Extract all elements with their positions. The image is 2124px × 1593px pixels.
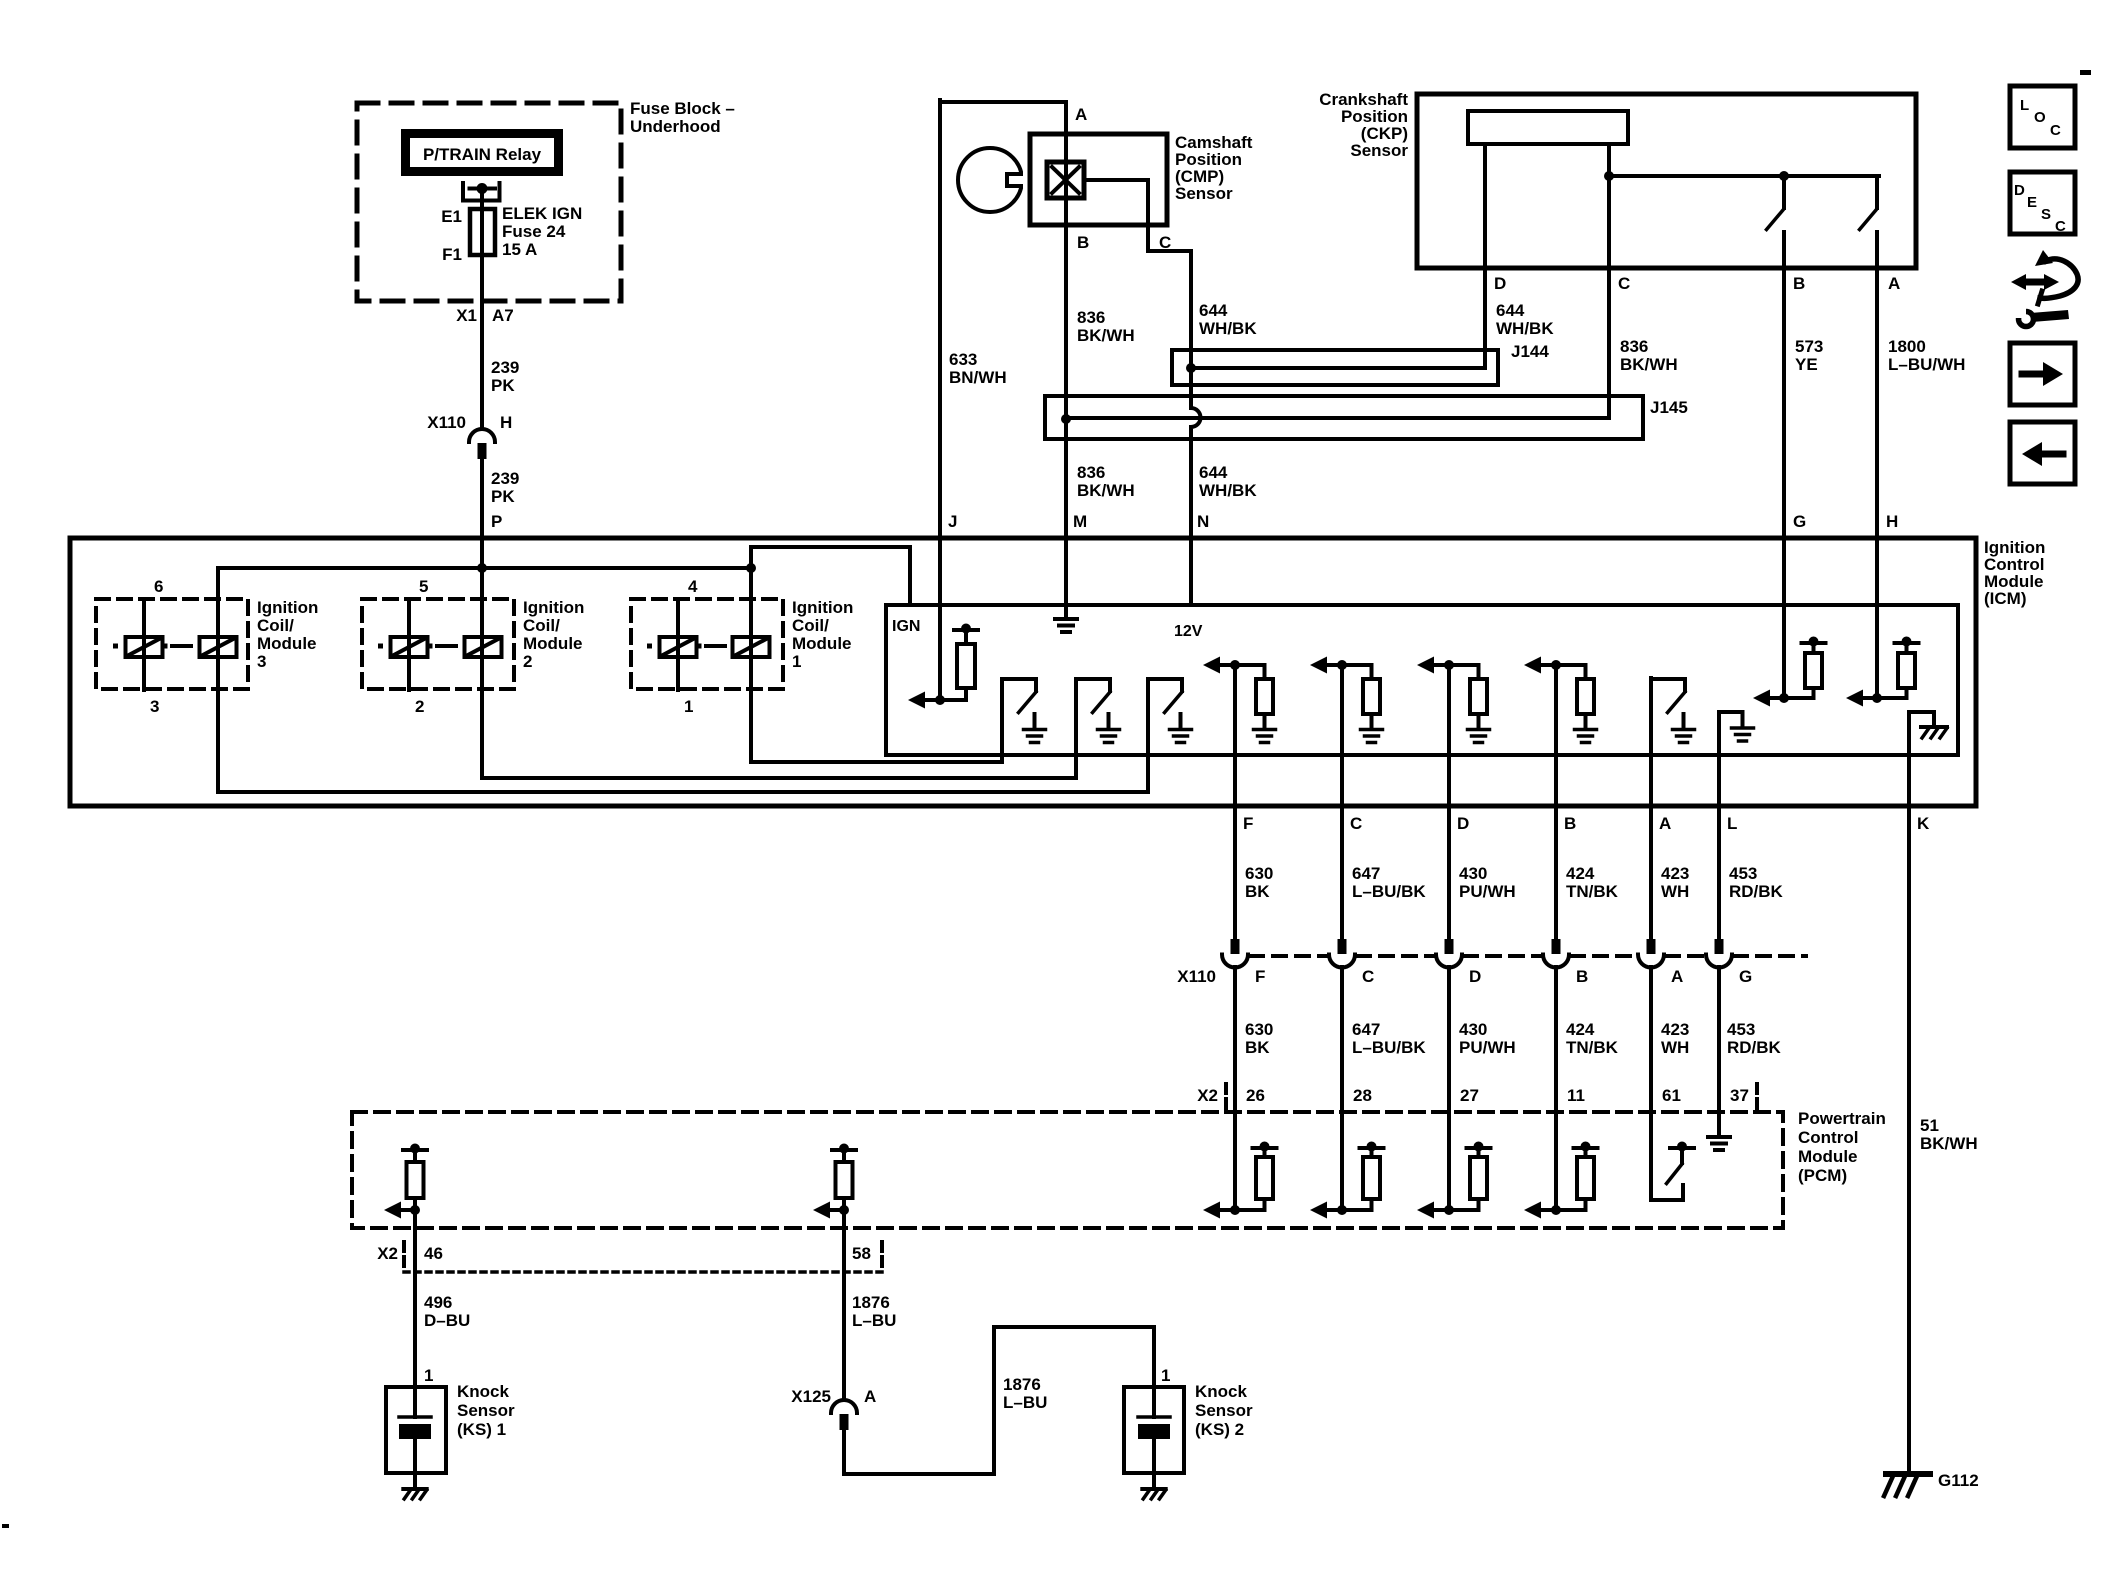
wire 239 PK from X110 to ICM pin P [480, 459, 484, 637]
svg-text:YE: YE [1795, 355, 1818, 374]
svg-text:G: G [1793, 512, 1806, 531]
CKP pin labels [1494, 274, 1900, 293]
svg-text:1876: 1876 [852, 1293, 890, 1312]
P/TRAIN Relay box [401, 129, 563, 176]
svg-text:1: 1 [424, 1366, 433, 1385]
camshaft position (CMP) sensor circle [958, 148, 1022, 212]
ignition coil/module 1 dashed box [631, 599, 783, 689]
svg-text:L–BU/BK: L–BU/BK [1352, 882, 1426, 901]
svg-text:12V: 12V [1174, 623, 1203, 640]
svg-text:28: 28 [1353, 1086, 1372, 1105]
wire labels 630 BK / 647 L-BU/BK / 430 PU/WH / 424 TN/BK / 423 WH / 453 RD/BK (row 1) [1245, 864, 1784, 901]
CKP wire labels [1496, 301, 1965, 531]
ignition coil/module 3 dashed box [96, 599, 248, 689]
svg-text:PK: PK [491, 487, 515, 506]
svg-text:X1: X1 [456, 306, 477, 325]
svg-text:Control: Control [1798, 1128, 1858, 1147]
wires X110 to PCM [1233, 967, 1237, 1210]
PCM channel at x=1235: pull-up resistor, junction, arrow [1253, 1146, 1277, 1150]
ignition control module (ICM) box [70, 538, 1976, 806]
coil module 2 labels [415, 577, 584, 716]
svg-text:496: 496 [424, 1293, 452, 1312]
svg-text:6: 6 [154, 577, 163, 596]
svg-text:A: A [1671, 967, 1683, 986]
svg-text:L–BU: L–BU [1003, 1393, 1047, 1412]
svg-text:644: 644 [1199, 463, 1228, 482]
ICM bottom pin labels [1243, 814, 1930, 833]
powertrain control module (PCM) dashed box [352, 1112, 1783, 1228]
svg-text:27: 27 [1460, 1086, 1479, 1105]
svg-text:WH/BK: WH/BK [1199, 319, 1257, 338]
svg-text:647: 647 [1352, 1020, 1380, 1039]
svg-text:Knock: Knock [457, 1382, 510, 1401]
svg-text:H: H [1886, 512, 1898, 531]
svg-text:K: K [1917, 814, 1930, 833]
svg-text:S: S [2041, 206, 2051, 223]
wire label 239 PK [491, 358, 519, 395]
wire 573 YE (G wire) [1782, 232, 1786, 698]
knock sensor (KS) 2 [1161, 1366, 1170, 1385]
wire module 2 primary to switch (coil 2 control) [482, 637, 1076, 778]
nav icon back (left arrow) [2010, 422, 2075, 484]
wire 51 BK/WH [1920, 1116, 1978, 1153]
ICM internal module box [886, 605, 1958, 755]
ICM switch output channel A [1649, 678, 1653, 939]
svg-text:Underhood: Underhood [630, 117, 721, 136]
nav icon next (right arrow) [2010, 343, 2075, 405]
svg-text:J145: J145 [1650, 398, 1688, 417]
wire 633 BN/WH (J wire) [938, 100, 942, 700]
nav icon DESC [2010, 172, 2075, 234]
svg-text:D: D [1494, 274, 1506, 293]
svg-text:A7: A7 [492, 306, 514, 325]
svg-text:5: 5 [419, 577, 428, 596]
svg-text:15 A: 15 A [502, 240, 537, 259]
svg-text:Fuse Block –: Fuse Block – [630, 99, 735, 118]
output channel at x=1342: arrow, junction, resistor to ground [1337, 660, 1347, 670]
svg-text:836: 836 [1620, 337, 1648, 356]
svg-text:2: 2 [415, 697, 424, 716]
ignition coil/module 2 dashed box [362, 599, 514, 689]
svg-text:WH: WH [1661, 882, 1689, 901]
svg-text:L–BU/BK: L–BU/BK [1352, 1038, 1426, 1057]
X110 connector terminal at x=1719 [1715, 939, 1724, 954]
wire labels 496 D-BU / 1876 L-BU [424, 1293, 896, 1330]
PCM channel at x=1556: pull-up resistor, junction, arrow [1574, 1146, 1598, 1150]
svg-text:BN/WH: BN/WH [949, 368, 1007, 387]
CMP pin labels [1075, 105, 1171, 252]
coil driver switch 1 [1000, 679, 1004, 762]
KS1 chassis ground [403, 1487, 426, 1491]
svg-text:G: G [1739, 967, 1752, 986]
connector X110 pin H [469, 429, 495, 442]
svg-text:2: 2 [523, 652, 532, 671]
svg-text:3: 3 [257, 652, 266, 671]
svg-text:X2: X2 [377, 1244, 398, 1263]
linkage dot-dash [378, 644, 383, 649]
svg-text:BK: BK [1245, 882, 1270, 901]
svg-text:26: 26 [1246, 1086, 1265, 1105]
connector X2 labels (ignition side) [1197, 1086, 1749, 1105]
svg-text:F: F [1255, 967, 1265, 986]
svg-text:424: 424 [1566, 864, 1595, 883]
svg-text:J: J [948, 512, 957, 531]
X2 connector end ticks [1224, 1084, 1228, 1108]
svg-text:644: 644 [1496, 301, 1525, 320]
coil module 2 primary winding [465, 637, 502, 657]
PCM channel at x=1342: pull-up resistor, junction, arrow [1360, 1146, 1384, 1150]
svg-text:1: 1 [684, 697, 693, 716]
svg-text:647: 647 [1352, 864, 1380, 883]
svg-text:RD/BK: RD/BK [1729, 882, 1784, 901]
svg-text:C: C [1362, 967, 1374, 986]
CKP sensor element [1468, 111, 1628, 144]
nav icon swap/wrench [2011, 250, 2078, 304]
svg-text:61: 61 [1662, 1086, 1681, 1105]
X110 connector terminal at x=1651 [1647, 939, 1656, 954]
rail jog to internal 12V [751, 547, 910, 605]
X110 connector terminal at x=1449 [1445, 939, 1454, 954]
fuse block underhood dashed box [357, 103, 621, 301]
svg-text:WH/BK: WH/BK [1199, 481, 1257, 500]
coil module 1 labels [684, 577, 853, 716]
svg-text:C: C [2055, 218, 2066, 235]
svg-text:239: 239 [491, 358, 519, 377]
svg-text:46: 46 [424, 1244, 443, 1263]
svg-text:L–BU: L–BU [852, 1311, 896, 1330]
svg-text:N: N [1197, 512, 1209, 531]
crankshaft position (CKP) sensor box [1417, 94, 1916, 268]
X110 connector terminal at x=1235 [1231, 939, 1240, 954]
svg-text:WH/BK: WH/BK [1496, 319, 1554, 338]
svg-text:WH: WH [1661, 1038, 1689, 1057]
PCM channel at x=1449: pull-up resistor, junction, arrow [1467, 1146, 1491, 1150]
svg-text:Coil/: Coil/ [523, 616, 560, 635]
svg-text:P/TRAIN Relay: P/TRAIN Relay [423, 145, 542, 164]
svg-text:C: C [1618, 274, 1630, 293]
svg-text:L: L [1727, 814, 1737, 833]
svg-text:Fuse 24: Fuse 24 [502, 222, 566, 241]
coil driver switch 3 [1146, 679, 1150, 792]
svg-text:453: 453 [1729, 864, 1757, 883]
svg-text:M: M [1073, 512, 1087, 531]
svg-text:453: 453 [1727, 1020, 1755, 1039]
svg-text:F1: F1 [442, 245, 462, 264]
PCM channel 61: switch to pin [1651, 1110, 1683, 1200]
svg-text:4: 4 [688, 577, 698, 596]
linkage dot-dash [113, 644, 118, 649]
svg-text:BK/WH: BK/WH [1077, 326, 1135, 345]
svg-text:(KS) 1: (KS) 1 [457, 1420, 506, 1439]
svg-text:A: A [864, 1387, 876, 1406]
svg-text:Ignition: Ignition [523, 598, 584, 617]
ICM input channel G (573 YE): junction arrow and pull-up [1779, 693, 1789, 703]
svg-text:BK/WH: BK/WH [1620, 355, 1678, 374]
svg-text:430: 430 [1459, 1020, 1487, 1039]
svg-text:B: B [1077, 233, 1089, 252]
coil module 3 labels [150, 577, 318, 716]
svg-text:RD/BK: RD/BK [1727, 1038, 1782, 1057]
svg-text:A: A [1659, 814, 1671, 833]
svg-text:E: E [2027, 194, 2037, 211]
svg-text:423: 423 [1661, 1020, 1689, 1039]
svg-text:3: 3 [150, 697, 159, 716]
coil module 2 secondary winding (pins 5/2) [407, 601, 411, 690]
page mark [2080, 70, 2091, 75]
svg-text:Ignition: Ignition [257, 598, 318, 617]
wire 644 WH/BK (N wire) with hop over J145 shield [1191, 251, 1201, 605]
wire 239 PK from fuse to X110 [480, 255, 484, 429]
svg-text:C: C [1350, 814, 1362, 833]
svg-text:37: 37 [1730, 1086, 1749, 1105]
label Crankshaft Position (CKP) Sensor [1319, 90, 1408, 160]
CKP internal wiring [1607, 144, 1611, 176]
wrench [2019, 312, 2034, 327]
svg-text:ELEK IGN: ELEK IGN [502, 204, 582, 223]
connector X125 pin A [831, 1400, 857, 1413]
svg-text:PU/WH: PU/WH [1459, 1038, 1516, 1057]
svg-text:O: O [2034, 109, 2046, 126]
svg-text:644: 644 [1199, 301, 1228, 320]
svg-text:B: B [1793, 274, 1805, 293]
svg-text:430: 430 [1459, 864, 1487, 883]
X110 row labels [1177, 967, 1752, 986]
ICM 12V feed rail [218, 566, 751, 570]
svg-text:11: 11 [1567, 1086, 1585, 1105]
wire labels 836 BK/WH and 644 WH/BK (lower) [948, 463, 1257, 531]
svg-text:TN/BK: TN/BK [1566, 882, 1619, 901]
svg-text:Module: Module [523, 634, 583, 653]
wire CKP pin D (644 WH/BK) to J144 [1483, 144, 1487, 368]
label Camshaft Position (CMP) Sensor [1175, 133, 1253, 203]
wire CMP A to J (top link) [940, 100, 1066, 104]
svg-text:Ignition: Ignition [792, 598, 853, 617]
svg-text:(PCM): (PCM) [1798, 1166, 1847, 1185]
svg-text:E1: E1 [441, 207, 462, 226]
svg-text:836: 836 [1077, 308, 1105, 327]
wire CKP pin C (836 BK/WH) to J145 [1607, 176, 1611, 418]
svg-text:D–BU: D–BU [424, 1311, 470, 1330]
wire module 3 primary to switch (coil 3 control) [218, 568, 1148, 792]
PCM knock sensor channel 1 (pin 46) [403, 1148, 427, 1152]
svg-text:L–BU/WH: L–BU/WH [1888, 355, 1965, 374]
svg-text:836: 836 [1077, 463, 1105, 482]
svg-text:J144: J144 [1511, 342, 1549, 361]
splice J144 shield box [1172, 350, 1498, 385]
ICM sensor ground (M wire) [1055, 617, 1077, 621]
svg-text:X125: X125 [791, 1387, 831, 1406]
X110 dashed connector line [1250, 954, 1327, 958]
wire from relay to fuse [480, 189, 484, 210]
svg-text:239: 239 [491, 469, 519, 488]
svg-text:B: B [1564, 814, 1576, 833]
svg-text:L: L [2020, 97, 2029, 114]
wire labels 836 BK/WH and 644 WH/BK (upper) [949, 301, 1257, 387]
svg-text:PU/WH: PU/WH [1459, 882, 1516, 901]
svg-text:Module: Module [1798, 1147, 1858, 1166]
svg-text:PK: PK [491, 376, 515, 395]
svg-text:F: F [1243, 814, 1253, 833]
wire labels row 2 [1245, 1020, 1782, 1057]
label Fuse Block - Underhood [630, 99, 735, 136]
wire from X box to CMP pin C [1084, 180, 1191, 251]
CKP switch A [1875, 176, 1879, 208]
output channel at x=1235: arrow, junction, resistor to ground [1230, 660, 1240, 670]
coil module 1 secondary winding (pins 4/1) [676, 601, 680, 690]
coil module 3 secondary winding (pins 6/3) [142, 601, 146, 690]
svg-text:BK: BK [1245, 1038, 1270, 1057]
coil module 3 primary winding [200, 637, 237, 657]
ICM case ground (K wire) [1909, 712, 1934, 1472]
coil module 1 primary winding [733, 637, 770, 657]
CMP sensor element (X box) [1047, 162, 1084, 198]
svg-text:C: C [1159, 233, 1171, 252]
svg-text:(ICM): (ICM) [1984, 589, 2026, 608]
X110 connector terminal at x=1342 [1338, 939, 1347, 954]
connector X1 pin A7 labels [456, 306, 514, 325]
ICM IGN input: junction, arrow, pull-up resistor [935, 695, 945, 705]
splice J145 shield box [1045, 396, 1643, 439]
svg-text:Powertrain: Powertrain [1798, 1109, 1886, 1128]
CMP sensor body box [1030, 134, 1167, 225]
linkage dot-dash [647, 644, 652, 649]
svg-text:Sensor: Sensor [1350, 141, 1408, 160]
svg-text:1800: 1800 [1888, 337, 1926, 356]
PCM channel 37: ground [1708, 1135, 1730, 1139]
fuse 24 (ELEK IGN 15 A) [470, 209, 495, 255]
svg-text:Coil/: Coil/ [792, 616, 829, 635]
svg-text:423: 423 [1661, 864, 1689, 883]
svg-text:BK/WH: BK/WH [1920, 1134, 1978, 1153]
svg-text:D: D [2014, 182, 2025, 199]
svg-text:630: 630 [1245, 1020, 1273, 1039]
wire 1800 L-BU/WH (H wire) [1875, 232, 1879, 698]
ICM low reference channel L to ground [1719, 712, 1743, 939]
output channel at x=1556: arrow, junction, resistor to ground [1551, 660, 1561, 670]
svg-text:X110: X110 [1177, 967, 1216, 986]
svg-text:Knock: Knock [1195, 1382, 1248, 1401]
svg-text:BK/WH: BK/WH [1077, 481, 1135, 500]
svg-text:C: C [2050, 122, 2061, 139]
svg-text:51: 51 [1920, 1116, 1939, 1135]
KS2 chassis ground [1142, 1487, 1165, 1491]
svg-text:D: D [1469, 967, 1481, 986]
knock sensor (KS) 1 [424, 1366, 433, 1385]
svg-text:Sensor: Sensor [1175, 184, 1233, 203]
svg-text:B: B [1576, 967, 1588, 986]
wire module 1 primary to switch (coil 1 control) [751, 568, 1002, 762]
svg-text:630: 630 [1245, 864, 1273, 883]
svg-text:D: D [1457, 814, 1469, 833]
svg-text:X2: X2 [1197, 1086, 1218, 1105]
svg-text:58: 58 [852, 1244, 871, 1263]
svg-text:IGN: IGN [892, 618, 920, 635]
svg-text:A: A [1888, 274, 1900, 293]
svg-text:424: 424 [1566, 1020, 1595, 1039]
svg-text:633: 633 [949, 350, 977, 369]
svg-text:1: 1 [1161, 1366, 1170, 1385]
wire CMP A/B vertical (836 BK/WH, M wire) [1064, 102, 1068, 617]
wire 1876 L-BU from X125 to KS2 [844, 1327, 1154, 1474]
svg-text:P: P [491, 512, 502, 531]
svg-text:G112: G112 [1938, 1471, 1979, 1490]
svg-text:TN/BK: TN/BK [1566, 1038, 1619, 1057]
svg-text:X110: X110 [427, 413, 466, 432]
svg-text:A: A [1075, 105, 1087, 124]
PCM knock sensor channel 2 (pin 58) [832, 1148, 856, 1152]
X110 connector terminal at x=1556 [1552, 939, 1561, 954]
svg-text:Sensor: Sensor [1195, 1401, 1253, 1420]
CKP switch B [1782, 176, 1786, 208]
connector X2 (knock sensor side) [377, 1244, 871, 1263]
svg-text:Sensor: Sensor [457, 1401, 515, 1420]
coil driver switch 2 [1074, 679, 1078, 778]
svg-text:(KS) 2: (KS) 2 [1195, 1420, 1244, 1439]
nav icon LOC [2010, 86, 2075, 148]
svg-text:1: 1 [792, 652, 801, 671]
svg-text:1876: 1876 [1003, 1375, 1041, 1394]
relay output terminal cup [463, 183, 500, 201]
ground G112 [1886, 1471, 1930, 1477]
svg-text:Module: Module [792, 634, 852, 653]
svg-text:Coil/: Coil/ [257, 616, 294, 635]
svg-text:H: H [500, 413, 512, 432]
svg-text:573: 573 [1795, 337, 1823, 356]
output channel at x=1449: arrow, junction, resistor to ground [1444, 660, 1454, 670]
ICM input channel H (1800 L-BU/WH): junction arrow and pull-up [1872, 693, 1882, 703]
svg-text:Module: Module [257, 634, 317, 653]
